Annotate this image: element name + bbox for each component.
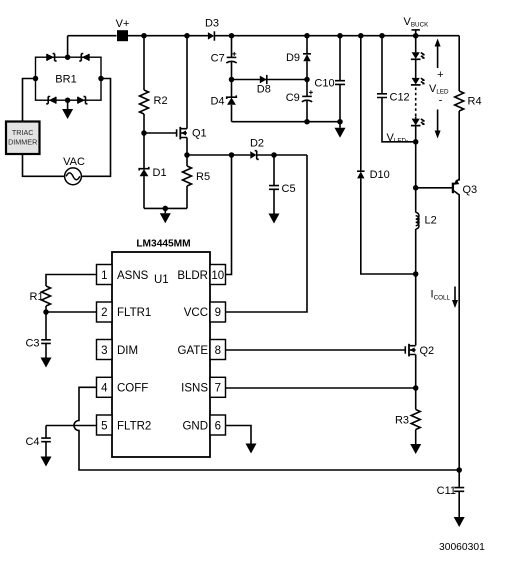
svg-text:10: 10 xyxy=(211,270,224,282)
wire pin 6 GND xyxy=(226,426,252,444)
wire BLDR riser xyxy=(226,155,232,275)
svg-text:VCC: VCC xyxy=(184,307,208,319)
node Q1 source junction xyxy=(184,152,190,158)
svg-text:R2: R2 xyxy=(154,95,168,107)
capacitor C7 polarized xyxy=(226,36,236,80)
zener diode D1 xyxy=(139,133,149,208)
bridge BR1 top-left diode xyxy=(47,54,57,61)
source VAC symbol xyxy=(65,168,82,185)
svg-text:Q2: Q2 xyxy=(420,345,435,357)
svg-text:8: 8 xyxy=(215,345,221,357)
resistor R3 xyxy=(411,410,420,430)
svg-text:COFF: COFF xyxy=(117,383,148,395)
pin 6 box xyxy=(210,415,226,435)
svg-text:C5: C5 xyxy=(282,183,296,195)
svg-text:C4: C4 xyxy=(25,436,39,448)
pin 4 box xyxy=(97,377,113,397)
node C7 D4 D8 junction xyxy=(229,77,235,83)
diode D10 xyxy=(357,36,416,274)
bridge BR1 bottom-left diode xyxy=(46,97,56,104)
svg-text:5: 5 xyxy=(101,420,107,432)
ground below D1 R5 xyxy=(160,208,171,223)
wire VAC to bridge right xyxy=(81,79,110,177)
svg-text:D8: D8 xyxy=(257,84,271,96)
annotation ICOLL arrow xyxy=(452,287,458,309)
svg-text:D4: D4 xyxy=(210,95,224,107)
svg-text:9: 9 xyxy=(215,307,221,319)
svg-text:ASNS: ASNS xyxy=(117,270,149,282)
node BLDR riser junction xyxy=(229,152,235,158)
ground below C4 xyxy=(41,457,52,467)
svg-text:U1: U1 xyxy=(154,274,169,286)
wire Q1 source down xyxy=(186,138,188,156)
node bridge top-center junction xyxy=(65,54,71,60)
svg-text:+: + xyxy=(437,69,443,81)
wire R2 to D1 node xyxy=(143,114,145,133)
node bridge right junction xyxy=(98,76,104,82)
ground below GND pin xyxy=(246,444,257,454)
node VBUCK terminal xyxy=(412,30,420,36)
wire VLED- node down xyxy=(415,142,417,213)
node D9 branch on rail xyxy=(304,33,310,39)
wire VCC riser xyxy=(226,155,308,312)
svg-text:C10: C10 xyxy=(314,78,334,90)
LED DLED1 xyxy=(411,36,425,60)
wire pin 8 GATE to Q2 xyxy=(226,349,406,351)
ground below bridge xyxy=(62,100,73,119)
node R2/D1/Q1-gate junction xyxy=(141,130,147,136)
wire dashed LED string continuation xyxy=(415,88,417,117)
svg-text:C11: C11 xyxy=(437,485,456,497)
wire top rail left segment xyxy=(68,35,117,37)
node C5 junction xyxy=(271,152,277,158)
svg-text:7: 7 xyxy=(215,383,221,395)
node C7 branch on rail xyxy=(229,33,235,39)
node ISNS junction xyxy=(413,385,419,391)
transistor Q2 NMOS xyxy=(405,344,415,357)
svg-text:DIMMER: DIMMER xyxy=(8,137,37,146)
node ground stub junction xyxy=(163,206,169,212)
node bridge left junction xyxy=(33,76,39,82)
svg-text:C9: C9 xyxy=(286,92,300,104)
wire Q3 base xyxy=(416,187,453,189)
bridge BR1 bottom-right diode xyxy=(78,97,88,104)
wire pin 2 FLTR1 xyxy=(46,311,97,313)
node C10 bottom junction xyxy=(337,119,343,125)
svg-text:TRIAC: TRIAC xyxy=(12,128,34,137)
pin 3 box xyxy=(97,340,113,360)
svg-text:R1: R1 xyxy=(30,291,44,303)
wire R1 to FLTR1 node xyxy=(45,306,47,312)
capacitor C4 xyxy=(41,426,51,457)
bridge BR1 top-right diode xyxy=(79,54,89,61)
pin 2 box xyxy=(97,302,113,322)
wire D8 horizontal xyxy=(232,79,308,81)
TRIAC dimmer box xyxy=(6,122,40,155)
svg-text:VAC: VAC xyxy=(63,156,85,168)
wire top rail middle segment xyxy=(128,35,208,37)
node D10 branch on rail xyxy=(358,33,364,39)
zener diode D4 xyxy=(227,80,237,122)
wire TRIAC dimmer to VAC xyxy=(23,154,65,176)
node LED string top on rail xyxy=(413,33,419,39)
node junction R2 branch on rail xyxy=(141,33,147,39)
svg-text:L2: L2 xyxy=(425,215,437,227)
node Q1 drain on rail xyxy=(184,33,190,39)
svg-text:R3: R3 xyxy=(395,415,409,427)
capacitor C3 xyxy=(41,312,51,358)
svg-text:GATE: GATE xyxy=(178,345,209,357)
node R1 FLTR1 junction xyxy=(43,309,49,315)
node C10 branch on rail xyxy=(337,33,343,39)
svg-text:C12: C12 xyxy=(390,92,410,104)
diode D2 schottky xyxy=(250,151,258,160)
svg-text:GND: GND xyxy=(182,420,208,432)
diode D8 xyxy=(260,75,267,84)
resistor R1 xyxy=(42,286,51,306)
node bridge bottom-center junction xyxy=(65,97,71,103)
svg-text:2: 2 xyxy=(101,307,107,319)
svg-text:6: 6 xyxy=(215,420,221,432)
op-amp U1 LM3445MM IC body xyxy=(112,252,210,457)
wire L2 to Q2 drain xyxy=(415,229,417,346)
node bottom rail junction xyxy=(456,467,462,473)
annotation VLED down arrow xyxy=(435,110,441,139)
svg-text:3: 3 xyxy=(101,345,107,357)
resistor R4 xyxy=(455,36,464,181)
inductor L2 xyxy=(416,213,419,230)
pin 5 box xyxy=(97,415,113,435)
ground below C10 xyxy=(335,122,346,138)
wire pin 1 ASNS to R1 xyxy=(46,275,97,287)
svg-text:R5: R5 xyxy=(196,171,210,183)
wire pin 4 COFF with hop to bottom rail xyxy=(74,387,459,470)
pin 10 box xyxy=(210,265,226,285)
resistor R2 xyxy=(140,90,149,114)
capacitor C9 polarized xyxy=(302,80,313,122)
wire top rail right segment xyxy=(214,35,459,37)
ground below C11 xyxy=(454,517,465,527)
svg-text:ISNS: ISNS xyxy=(181,383,208,395)
svg-text:1: 1 xyxy=(101,270,107,282)
capacitor C12 xyxy=(377,36,416,142)
annotation VLED up arrow xyxy=(435,39,441,69)
wire D2 to VCC riser xyxy=(257,154,307,156)
node C12 branch on rail xyxy=(379,33,385,39)
svg-text:DIM: DIM xyxy=(117,345,138,357)
node Q3 base junction xyxy=(413,185,419,191)
capacitor C11 xyxy=(454,470,464,517)
wire Q2 source down xyxy=(415,355,417,410)
ground below R3 xyxy=(410,430,421,455)
bridge rectifier BR1 body xyxy=(36,57,102,100)
svg-text:R4: R4 xyxy=(468,96,482,108)
node V+ terminal square xyxy=(117,30,128,41)
node VLED- junction xyxy=(413,139,419,145)
node D8 C9 junction xyxy=(304,77,310,83)
node C9 bottom junction xyxy=(304,119,310,125)
svg-text:D9: D9 xyxy=(286,52,300,64)
capacitor C5 xyxy=(269,155,279,214)
svg-text:D10: D10 xyxy=(370,169,390,181)
svg-text:V+: V+ xyxy=(116,18,130,30)
svg-text:C3: C3 xyxy=(25,338,39,350)
svg-text:D1: D1 xyxy=(153,167,167,179)
wire gate of Q1 xyxy=(144,132,177,134)
svg-text:-: - xyxy=(439,95,443,107)
LED DLED2 xyxy=(411,59,425,85)
pin 9 box xyxy=(210,302,226,322)
wire pin 7 ISNS to Q2 source xyxy=(226,387,416,389)
svg-text:BR1: BR1 xyxy=(55,74,76,86)
svg-text:BLDR: BLDR xyxy=(177,270,208,282)
transistor Q1 NMOS xyxy=(177,127,187,140)
diode D3 xyxy=(208,31,215,40)
capacitor C10 xyxy=(335,36,345,122)
svg-text:LM3445MM: LM3445MM xyxy=(136,239,190,250)
transistor Q3 PNP xyxy=(453,179,459,470)
LED DLED3 xyxy=(411,117,425,142)
svg-text:4: 4 xyxy=(101,383,108,395)
wire bridge top riser to V+ rail xyxy=(67,36,69,58)
svg-text:Q3: Q3 xyxy=(463,184,478,196)
diode D9 xyxy=(303,36,311,80)
wire bridge left to TRIAC dimmer xyxy=(23,79,36,122)
wire rail to R2 xyxy=(143,36,145,90)
wire pin 5 FLTR2 xyxy=(46,425,97,427)
wire Q1 drain to rail xyxy=(186,36,188,129)
pin 8 box xyxy=(210,340,226,360)
pin 1 box xyxy=(97,265,113,285)
resistor R5 xyxy=(183,155,192,208)
svg-text:D3: D3 xyxy=(205,18,219,30)
ground below C3 xyxy=(41,358,52,368)
pin 7 box xyxy=(210,377,226,397)
svg-text:D2: D2 xyxy=(250,138,264,150)
svg-text:30060301: 30060301 xyxy=(439,542,485,553)
wire C7 block bottom xyxy=(232,121,341,123)
wire Q1 source to VCC feed xyxy=(187,154,250,156)
svg-text:FLTR2: FLTR2 xyxy=(117,420,151,432)
svg-text:FLTR1: FLTR1 xyxy=(117,307,151,319)
ground below C5 xyxy=(269,214,280,224)
node D10 return junction xyxy=(413,271,419,277)
svg-text:Q1: Q1 xyxy=(192,128,207,140)
wire D1 R5 bottom xyxy=(144,207,187,209)
svg-text:C7: C7 xyxy=(211,53,225,65)
